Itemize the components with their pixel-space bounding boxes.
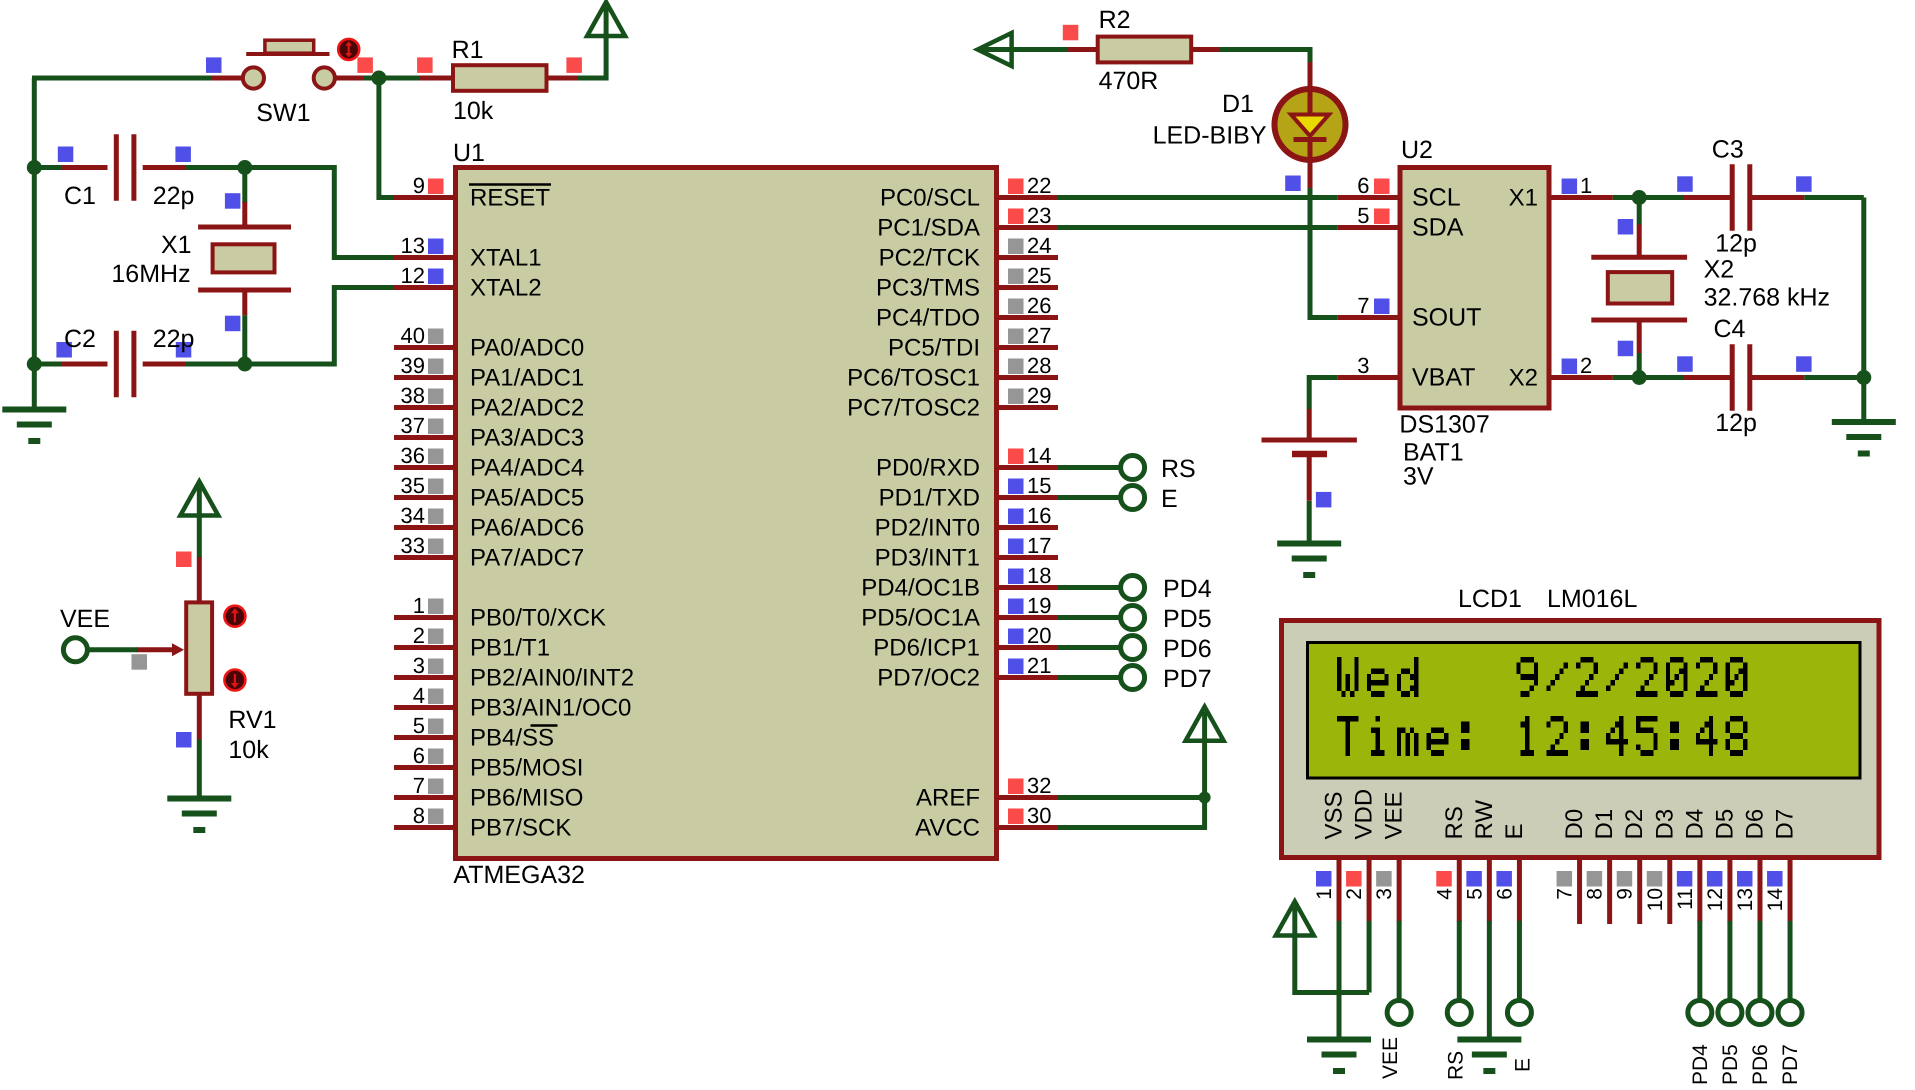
wire LCD D6 down to terminal xyxy=(1757,921,1762,1001)
wire +5V arrow to VDD xyxy=(1295,936,1369,992)
svg-text:12: 12 xyxy=(1704,888,1727,911)
ic U2 DS1307 body xyxy=(1400,168,1549,409)
U2 pin 5 (SDA) xyxy=(1338,203,1464,242)
wire C1 to junction xyxy=(186,165,245,170)
svg-text:5: 5 xyxy=(413,713,425,738)
svg-text:3: 3 xyxy=(1373,888,1396,900)
svg-text:34: 34 xyxy=(401,503,425,528)
svg-text:12p: 12p xyxy=(1715,409,1757,437)
wire C1 net to XTAL1 xyxy=(245,168,394,258)
battery BAT1 xyxy=(1262,409,1357,501)
U1 pin 23 (PC1/SDA) xyxy=(877,203,1058,242)
wire SCL (U1 pin22 to U2) xyxy=(1057,195,1338,200)
svg-text:PB4/SS: PB4/SS xyxy=(470,725,554,752)
svg-text:RS: RS xyxy=(1444,1051,1467,1080)
svg-text:PB3/AIN1/OC0: PB3/AIN1/OC0 xyxy=(470,695,631,722)
U1 pin 18 (PD4/OC1B) xyxy=(861,563,1058,602)
svg-text:ATMEGA32: ATMEGA32 xyxy=(453,861,585,889)
power +5V arrow (LCD VDD) xyxy=(1276,902,1314,936)
svg-text:8: 8 xyxy=(1584,888,1607,900)
wire U1 to terminal PD4 xyxy=(1058,585,1122,590)
svg-text:XTAL2: XTAL2 xyxy=(470,275,542,302)
wire LCD D7 down to terminal xyxy=(1788,921,1793,1001)
svg-text:C1: C1 xyxy=(64,182,96,210)
wire RV1 bottom to ground xyxy=(197,740,202,799)
svg-text:22p: 22p xyxy=(153,325,195,353)
wire junction to ground (right) xyxy=(1861,378,1866,422)
terminal VEE (LCD) xyxy=(1387,1001,1411,1025)
svg-text:7: 7 xyxy=(1357,293,1369,318)
wire AREF to junction xyxy=(1058,795,1205,800)
svg-text:E: E xyxy=(1511,1058,1534,1072)
svg-text:23: 23 xyxy=(1027,203,1051,228)
svg-text:SDA: SDA xyxy=(1412,214,1464,242)
lcd display text row 2: Time: 12:45:48 xyxy=(1337,716,1747,756)
U1 pin 25 (PC3/TMS) xyxy=(876,263,1058,302)
wire SW1 to junction xyxy=(363,76,379,81)
power +5V arrow (AVCC) xyxy=(1186,707,1224,741)
wire LCD D5 down to terminal xyxy=(1727,921,1732,1001)
svg-text:PD1/TXD: PD1/TXD xyxy=(879,485,980,512)
ground RV1 xyxy=(167,796,231,802)
ground right (crystal caps) xyxy=(1832,419,1896,425)
LCD1 pin 14 (D7) xyxy=(1764,809,1799,922)
svg-text:RW: RW xyxy=(1471,800,1498,840)
svg-text:PD3/INT1: PD3/INT1 xyxy=(875,545,980,572)
wire SDA (U1 pin23 to U2) xyxy=(1057,225,1338,230)
U1 pin 6 (PB5/MOSI) xyxy=(394,743,583,782)
svg-text:PD2/INT0: PD2/INT0 xyxy=(875,515,980,542)
terminal PD5 (LCD) xyxy=(1718,1001,1742,1025)
indicator square RV1 bottom (blue) xyxy=(176,732,192,748)
wire C1 net left segment xyxy=(34,165,63,170)
indicator square C1 right (blue) xyxy=(175,147,191,163)
terminal E xyxy=(1121,486,1145,510)
wire E down to terminal xyxy=(1517,921,1522,1001)
U2 pin 2 (X2) xyxy=(1509,353,1613,392)
svg-text:PD0/RXD: PD0/RXD xyxy=(876,455,980,482)
svg-text:VSS: VSS xyxy=(1321,791,1348,839)
svg-text:LED-BIBY: LED-BIBY xyxy=(1153,122,1267,150)
svg-text:D0: D0 xyxy=(1561,809,1588,840)
svg-text:U2: U2 xyxy=(1401,136,1433,164)
wire reset-top rail from left vertical to SW1 xyxy=(32,76,212,81)
resistor R1 xyxy=(419,65,577,91)
wire VSS to ground xyxy=(1337,921,1342,1040)
LCD1 pin 1 (VSS) xyxy=(1313,791,1348,922)
wire U1 to terminal E xyxy=(1058,495,1122,500)
indicator square C2 left (blue) xyxy=(56,342,72,358)
svg-text:SCL: SCL xyxy=(1412,184,1461,212)
svg-text:X1: X1 xyxy=(161,231,192,259)
svg-text:5: 5 xyxy=(1463,888,1486,900)
U1 pin 39 (PA1/ADC1) xyxy=(394,353,584,392)
svg-text:1: 1 xyxy=(1580,173,1592,198)
LCD1 pin 8 (D1) xyxy=(1584,809,1619,924)
U2 pin 1 (X1) xyxy=(1509,173,1613,212)
svg-text:X1: X1 xyxy=(1509,185,1538,212)
svg-text:VDD: VDD xyxy=(1351,789,1378,840)
svg-text:PB1/T1: PB1/T1 xyxy=(470,635,550,662)
svg-text:PD4: PD4 xyxy=(1163,575,1212,603)
svg-text:PD5/OC1A: PD5/OC1A xyxy=(861,605,980,632)
svg-text:5: 5 xyxy=(1357,203,1369,228)
capacitor C2 xyxy=(62,331,186,397)
svg-text:16MHz: 16MHz xyxy=(111,260,190,288)
svg-text:E: E xyxy=(1501,823,1528,839)
svg-text:20: 20 xyxy=(1027,623,1051,648)
U1 pin 20 (PD6/ICP1) xyxy=(873,623,1058,662)
indicator square BAT1 (blue) xyxy=(1316,492,1332,508)
svg-text:3: 3 xyxy=(1357,353,1369,378)
indicator square C4 left (blue) xyxy=(1677,356,1693,372)
wire U1 to terminal PD6 xyxy=(1058,645,1122,650)
ground LCD RW xyxy=(1457,1037,1521,1043)
svg-text:PD6/ICP1: PD6/ICP1 xyxy=(873,635,980,662)
wire VEE down to terminal xyxy=(1397,921,1402,1001)
indicator square X2 top (blue) xyxy=(1618,219,1634,235)
svg-text:3: 3 xyxy=(413,653,425,678)
svg-text:U1: U1 xyxy=(453,139,485,167)
svg-text:2: 2 xyxy=(413,623,425,648)
U2 pin 3 (VBAT) xyxy=(1338,353,1476,392)
svg-text:PA2/ADC2: PA2/ADC2 xyxy=(470,395,584,422)
svg-text:10k: 10k xyxy=(453,97,494,125)
LCD1 pin 5 (RW) xyxy=(1463,800,1498,922)
svg-text:37: 37 xyxy=(401,413,425,438)
junction AREF/AVCC xyxy=(1199,792,1211,804)
svg-text:4: 4 xyxy=(1433,888,1456,900)
U1 pin 38 (PA2/ADC2) xyxy=(394,383,584,422)
svg-text:35: 35 xyxy=(401,473,425,498)
indicator square R1 right (red) xyxy=(566,57,582,73)
U1 pin 30 (AVCC) xyxy=(915,803,1058,842)
wire RESET net down to pin 9 xyxy=(379,78,394,198)
U1 pin 32 (AREF) xyxy=(916,773,1058,812)
U1 pin 27 (PC5/TDI) xyxy=(888,323,1058,362)
svg-text:4: 4 xyxy=(413,683,425,708)
U1 pin 33 (PA7/ADC7) xyxy=(394,533,584,572)
wire U2 X2 pin to junction xyxy=(1613,375,1683,380)
wire R1 to +5V arrow xyxy=(577,36,606,78)
svg-text:PD7: PD7 xyxy=(1779,1044,1802,1085)
wire U1 to terminal RS xyxy=(1058,465,1122,470)
RV1 knob up xyxy=(224,606,245,627)
svg-text:PA1/ADC1: PA1/ADC1 xyxy=(470,365,584,392)
svg-text:17: 17 xyxy=(1027,533,1051,558)
svg-text:3V: 3V xyxy=(1403,463,1434,491)
svg-text:30: 30 xyxy=(1027,803,1051,828)
svg-text:36: 36 xyxy=(401,443,425,468)
indicator square C1 left (blue) xyxy=(58,147,74,163)
SW1 actuator knob xyxy=(338,39,359,60)
svg-text:R1: R1 xyxy=(452,36,484,64)
svg-text:PA7/ADC7: PA7/ADC7 xyxy=(470,545,584,572)
svg-text:13: 13 xyxy=(1734,888,1757,911)
wire LCD D4 down to terminal xyxy=(1697,921,1702,1001)
crystal X1 xyxy=(198,168,291,365)
svg-text:RS: RS xyxy=(1441,806,1468,839)
indicator square RV1 wiper (gray) xyxy=(132,654,148,670)
svg-text:PD6: PD6 xyxy=(1749,1044,1772,1085)
svg-text:14: 14 xyxy=(1764,888,1787,912)
svg-text:D3: D3 xyxy=(1651,809,1678,840)
U1 pin 28 (PC6/TOSC1) xyxy=(847,353,1058,392)
U1 pin 13 (XTAL1) xyxy=(394,233,542,272)
terminal PD6 (LCD) xyxy=(1748,1001,1772,1025)
svg-text:LCD1: LCD1 xyxy=(1458,585,1522,613)
svg-text:X2: X2 xyxy=(1704,256,1735,284)
wire VDD down xyxy=(1367,921,1372,993)
U1 pin 26 (PC4/TDO) xyxy=(876,293,1058,332)
svg-text:LM016L: LM016L xyxy=(1547,585,1637,613)
svg-text:18: 18 xyxy=(1027,563,1051,588)
svg-text:C3: C3 xyxy=(1712,136,1744,164)
power +5V arrow (top) xyxy=(587,2,625,36)
svg-text:12: 12 xyxy=(401,263,425,288)
svg-text:VBAT: VBAT xyxy=(1412,364,1475,392)
svg-text:PA4/ADC4: PA4/ADC4 xyxy=(470,455,584,482)
wire arrow to RV1 xyxy=(197,517,202,558)
U1 pin 21 (PD7/OC2) xyxy=(877,653,1058,692)
svg-text:8: 8 xyxy=(413,803,425,828)
svg-text:D2: D2 xyxy=(1621,809,1648,840)
wire D1 to SOUT xyxy=(1310,188,1338,318)
terminal PD5 xyxy=(1121,606,1145,630)
svg-text:D7: D7 xyxy=(1772,809,1799,840)
svg-text:25: 25 xyxy=(1027,263,1051,288)
led D1 xyxy=(1275,62,1346,190)
svg-text:12p: 12p xyxy=(1715,230,1757,258)
wire left vertical GND rail xyxy=(32,78,37,410)
svg-text:6: 6 xyxy=(413,743,425,768)
svg-text:XTAL1: XTAL1 xyxy=(470,245,542,272)
wire C2 net to XTAL2 xyxy=(245,288,394,365)
indicator square C2 right (blue) xyxy=(176,342,192,358)
svg-text:27: 27 xyxy=(1027,323,1051,348)
wire RW to ground xyxy=(1487,921,1492,1040)
U1 pin 3 (PB2/AIN0/INT2) xyxy=(394,653,634,692)
svg-text:PC3/TMS: PC3/TMS xyxy=(876,275,980,302)
junction C2/X1 bottom xyxy=(237,357,252,372)
indicator square X1 top (blue) xyxy=(225,193,241,209)
svg-text:2: 2 xyxy=(1580,353,1592,378)
svg-text:14: 14 xyxy=(1027,443,1051,468)
svg-text:6: 6 xyxy=(1493,888,1516,900)
svg-text:PB7/SCK: PB7/SCK xyxy=(470,815,571,842)
svg-text:15: 15 xyxy=(1027,473,1051,498)
U2 pin 6 (SCL) xyxy=(1338,173,1461,212)
lcd screen xyxy=(1308,643,1861,779)
U1 pin 24 (PC2/TCK) xyxy=(879,233,1058,272)
wire battery to ground xyxy=(1307,501,1312,543)
junction right vertical / ground xyxy=(1856,370,1871,385)
svg-text:C2: C2 xyxy=(64,325,96,353)
power +5V arrow (RV1) xyxy=(180,482,218,516)
U1 pin 40 (PA0/ADC0) xyxy=(394,323,584,362)
svg-text:C4: C4 xyxy=(1714,315,1746,343)
svg-text:22p: 22p xyxy=(153,182,195,210)
wire R2 to LED D1 xyxy=(1220,50,1310,64)
capacitor C4 xyxy=(1683,344,1804,410)
indicator square X1 bottom (blue) xyxy=(225,316,241,332)
svg-text:AVCC: AVCC xyxy=(915,815,980,842)
svg-text:D5: D5 xyxy=(1711,809,1738,840)
svg-text:PD7/OC2: PD7/OC2 xyxy=(877,665,980,692)
U1 pin 22 (PC0/SCL) xyxy=(880,173,1058,212)
svg-text:6: 6 xyxy=(1357,173,1369,198)
svg-text:7: 7 xyxy=(1554,888,1577,900)
U1 pin 14 (PD0/RXD) xyxy=(876,443,1058,482)
svg-text:7: 7 xyxy=(413,773,425,798)
wire C2 net left segment xyxy=(34,362,63,367)
U1 pin 35 (PA5/ADC5) xyxy=(394,473,584,512)
U1 pin 36 (PA4/ADC4) xyxy=(394,443,584,482)
indicator square RV1 top (red) xyxy=(176,552,192,568)
svg-text:2: 2 xyxy=(1343,888,1366,900)
junction left rail / C1 xyxy=(27,160,42,175)
U1 pin 34 (PA6/ADC6) xyxy=(394,503,584,542)
terminal PD4 xyxy=(1121,576,1145,600)
svg-text:PD6: PD6 xyxy=(1163,635,1212,663)
indicator square D1 net (blue) xyxy=(1285,176,1301,192)
U1 pin 29 (PC7/TOSC2) xyxy=(847,383,1058,422)
svg-text:PA3/ADC3: PA3/ADC3 xyxy=(470,425,584,452)
LCD1 pin 4 (RS) xyxy=(1433,806,1468,922)
indicator square C4 right (blue) xyxy=(1796,356,1812,372)
svg-text:29: 29 xyxy=(1027,383,1051,408)
LCD1 pin 10 (D3) xyxy=(1644,809,1679,924)
wire AVCC up to AREF junction xyxy=(1058,742,1205,828)
terminal input arrow (R2 left) xyxy=(978,47,1018,52)
svg-text:19: 19 xyxy=(1027,593,1051,618)
U1 pin 4 (PB3/AIN1/OC0) xyxy=(394,683,631,722)
svg-text:PC2/TCK: PC2/TCK xyxy=(879,245,980,272)
svg-text:9: 9 xyxy=(1614,888,1637,900)
svg-text:24: 24 xyxy=(1027,233,1051,258)
svg-text:PC0/SCL: PC0/SCL xyxy=(880,185,980,212)
svg-text:PA6/ADC6: PA6/ADC6 xyxy=(470,515,584,542)
wire C3 to right vertical xyxy=(1804,195,1864,200)
svg-text:RS: RS xyxy=(1161,455,1196,483)
indicator square SW1 left (blue) xyxy=(206,57,222,73)
RV1 knob down xyxy=(224,670,245,691)
capacitor C1 xyxy=(62,134,186,200)
svg-text:32.768 kHz: 32.768 kHz xyxy=(1704,284,1830,312)
svg-text:E: E xyxy=(1161,485,1178,513)
svg-text:PC6/TOSC1: PC6/TOSC1 xyxy=(847,365,980,392)
junction X1/X2-crystal/C3 xyxy=(1632,190,1647,205)
U1 pin 1 (PB0/T0/XCK) xyxy=(394,593,606,632)
U1 pin 5 (PB4/SS) xyxy=(394,713,558,752)
wire VBAT to battery xyxy=(1309,378,1338,410)
svg-text:X2: X2 xyxy=(1509,365,1538,392)
svg-text:PC1/SDA: PC1/SDA xyxy=(877,215,980,242)
indicator square C3 right (blue) xyxy=(1796,176,1812,192)
U1 pin 8 (PB7/SCK) xyxy=(394,803,571,842)
svg-text:10k: 10k xyxy=(228,736,269,764)
svg-text:R2: R2 xyxy=(1099,6,1131,34)
svg-text:13: 13 xyxy=(401,233,425,258)
svg-text:D4: D4 xyxy=(1681,809,1708,840)
wire junction to R1 xyxy=(379,76,419,81)
wire U2 X1 pin to junction xyxy=(1613,195,1683,200)
svg-text:32: 32 xyxy=(1027,773,1051,798)
junction X2/crystal/C4 xyxy=(1632,370,1647,385)
terminal E (LCD) xyxy=(1507,1001,1531,1025)
svg-text:39: 39 xyxy=(401,353,425,378)
svg-text:VEE: VEE xyxy=(1379,1037,1402,1079)
resistor R2 xyxy=(1067,37,1220,63)
U1 pin 2 (PB1/T1) xyxy=(394,623,550,662)
ground LCD VSS xyxy=(1307,1037,1371,1043)
U1 pin 37 (PA3/ADC3) xyxy=(394,413,584,452)
junction RESET net xyxy=(371,71,386,86)
svg-text:16: 16 xyxy=(1027,503,1051,528)
svg-text:28: 28 xyxy=(1027,353,1051,378)
lcd LCD1 LM016L body xyxy=(1282,621,1880,858)
svg-text:1: 1 xyxy=(413,593,425,618)
wire C2 to junction xyxy=(186,362,245,367)
svg-text:1: 1 xyxy=(1313,888,1336,900)
U2 pin 7 (SOUT) xyxy=(1338,293,1482,332)
wire C4 to right vertical xyxy=(1804,375,1864,380)
potentiometer RV1 xyxy=(136,557,212,740)
svg-text:40: 40 xyxy=(401,323,425,348)
terminal VEE (left) xyxy=(63,638,87,662)
wire U1 to terminal PD5 xyxy=(1058,615,1122,620)
svg-text:PB2/AIN0/INT2: PB2/AIN0/INT2 xyxy=(470,665,634,692)
svg-text:PC4/TDO: PC4/TDO xyxy=(876,305,980,332)
ic U1 ATMEGA32 body xyxy=(456,168,997,859)
lcd display text row 1: Wed 9/2/2020 xyxy=(1337,657,1747,697)
svg-text:PC7/TOSC2: PC7/TOSC2 xyxy=(847,395,980,422)
svg-text:PD7: PD7 xyxy=(1163,665,1212,693)
svg-text:VEE: VEE xyxy=(1381,791,1408,839)
terminal RS (LCD) xyxy=(1447,1001,1471,1025)
U1 pin 17 (PD3/INT1) xyxy=(875,533,1058,572)
svg-text:PD5: PD5 xyxy=(1163,605,1212,633)
LCD1 pin 7 (D0) xyxy=(1554,809,1589,924)
LCD1 pin 6 (E) xyxy=(1493,823,1528,922)
terminal RS xyxy=(1121,456,1145,480)
svg-text:PA5/ADC5: PA5/ADC5 xyxy=(470,485,584,512)
junction left rail / C2 xyxy=(27,357,42,372)
terminal PD6 xyxy=(1121,636,1145,660)
terminal PD7 xyxy=(1121,666,1145,690)
wire U1 to terminal PD7 xyxy=(1058,675,1122,680)
LCD1 pin 11 (D4) xyxy=(1674,809,1709,922)
svg-text:SOUT: SOUT xyxy=(1412,304,1481,332)
svg-text:38: 38 xyxy=(401,383,425,408)
svg-text:26: 26 xyxy=(1027,293,1051,318)
LCD1 pin 2 (VDD) xyxy=(1343,789,1378,922)
ground battery xyxy=(1277,541,1341,547)
indicator square X2 bottom (blue) xyxy=(1618,341,1634,357)
ground left rail xyxy=(2,407,66,413)
svg-text:DS1307: DS1307 xyxy=(1399,411,1489,439)
U1 pin 15 (PD1/TXD) xyxy=(879,473,1058,512)
svg-text:11: 11 xyxy=(1674,888,1697,910)
svg-text:D1: D1 xyxy=(1222,90,1254,118)
svg-text:PA0/ADC0: PA0/ADC0 xyxy=(470,335,584,362)
terminal PD4 (LCD) xyxy=(1688,1001,1712,1025)
wire VEE terminal to RV1 wiper xyxy=(87,647,137,652)
svg-text:9: 9 xyxy=(413,173,425,198)
LCD1 pin 12 (D5) xyxy=(1704,809,1739,922)
LCD1 pin 3 (VEE) xyxy=(1373,791,1408,922)
wire right vertical (C3 to C4) xyxy=(1861,198,1866,378)
